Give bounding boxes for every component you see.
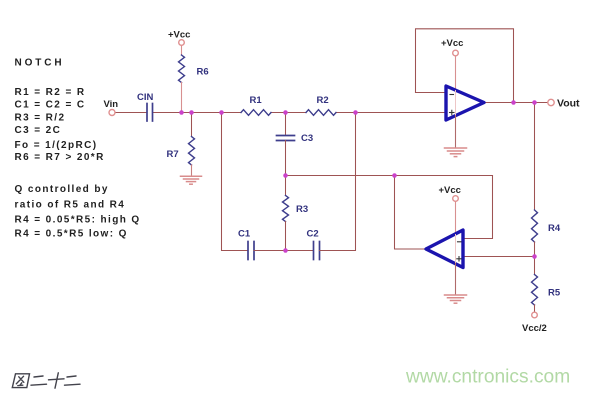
resistor R2 — [306, 110, 336, 116]
wire: +Vcc stub down to R6 — [181, 45, 183, 55]
svg-text:C2: C2 — [307, 229, 319, 240]
svg-text:R4 = 0.5*R5 low: Q: R4 = 0.5*R5 low: Q — [15, 229, 128, 240]
wire: op-amp1 feedback box — [416, 29, 514, 103]
resistor R3 — [283, 196, 289, 222]
wire: op-amp1 minus input — [416, 92, 447, 94]
wire: C1 to center bottom node — [254, 250, 314, 252]
svg-text:R3 = R/2: R3 = R/2 — [15, 112, 66, 123]
capacitor C1 — [248, 242, 254, 260]
capacitor CIN — [147, 104, 153, 122]
glyph shi — [49, 373, 65, 388]
wire: mid rail node down to R3 — [285, 176, 287, 196]
ground (op-amp1) — [445, 148, 467, 157]
wire: op-amp2 plus input to divider node — [463, 256, 535, 258]
wire: CIN right plate to R1 left — [153, 112, 242, 114]
svg-text:R6 = R7 > 20*R: R6 = R7 > 20*R — [15, 152, 105, 163]
svg-text:R2: R2 — [317, 95, 329, 106]
wire: op-amp2 minus loop — [463, 176, 493, 239]
node Vcc/2 open circle — [532, 312, 538, 318]
ground (below R7) — [181, 176, 202, 184]
svg-text:Vcc/2: Vcc/2 — [522, 323, 547, 334]
svg-text:+Vcc: +Vcc — [168, 30, 190, 41]
wire: R3 bottom to C1/C2 node — [285, 222, 287, 251]
resistor R4 — [532, 210, 538, 242]
capacitor C2 — [314, 242, 320, 260]
svg-text:R5: R5 — [548, 288, 561, 299]
svg-text:Vout: Vout — [557, 98, 580, 110]
glyph er — [31, 376, 47, 385]
glyph er — [65, 376, 81, 385]
node +Vcc open circle (op-amp1) — [453, 50, 459, 56]
svg-text:CIN: CIN — [137, 92, 154, 103]
wire: C3 bottom to mid-rail node — [285, 141, 287, 176]
svg-text:+Vcc: +Vcc — [441, 38, 463, 49]
svg-text:Fo = 1/(2pRC): Fo = 1/(2pRC) — [15, 140, 98, 151]
caption: figure number (drawn CJK glyphs) — [12, 373, 80, 388]
wire: R1 right to R2 left — [271, 112, 306, 114]
node junction dots — [179, 100, 537, 259]
note text block — [15, 58, 141, 240]
node Vin open circle — [109, 110, 115, 116]
svg-text:R1 = R2 = R: R1 = R2 = R — [15, 87, 86, 98]
node +Vcc open circle (op-amp2) — [453, 196, 459, 202]
svg-text:+Vcc: +Vcc — [439, 185, 461, 196]
svg-text:C3 = 2C: C3 = 2C — [15, 125, 62, 136]
svg-text:R3: R3 — [296, 204, 308, 215]
node +Vcc open circle (R6) — [179, 40, 185, 46]
wire: op-amp2 to ground — [455, 263, 457, 294]
svg-text:R6: R6 — [197, 67, 209, 78]
wire: mid node down to C3 — [285, 113, 287, 136]
wire: R4 bottom to divider node — [534, 242, 536, 275]
svg-text:ratio of R5 and R4: ratio of R5 and R4 — [15, 199, 126, 210]
svg-text:NOTCH: NOTCH — [15, 58, 65, 69]
resistor R7 — [189, 137, 195, 166]
svg-text:C1 = C2 = C: C1 = C2 = C — [15, 100, 86, 111]
svg-text:R4 = 0.05*R5: high Q: R4 = 0.05*R5: high Q — [15, 215, 141, 226]
wire: R5 bottom to Vcc/2 — [534, 305, 536, 312]
resistor R5 — [532, 275, 538, 306]
svg-text:C1: C1 — [238, 229, 251, 240]
wire: output node down to R4 — [534, 103, 536, 211]
resistor R6 — [179, 55, 185, 83]
wire: node down to R7 — [191, 113, 193, 137]
wire: op-amp1 to ground — [455, 116, 457, 148]
wire: +Vcc stub op-amp1 — [455, 56, 457, 90]
wire: R7 bottom to ground — [191, 165, 193, 176]
svg-text:www.cntronics.com: www.cntronics.com — [405, 367, 570, 388]
svg-text:Q controlled by: Q controlled by — [15, 184, 109, 195]
wire: R6 bottom to main line — [181, 83, 183, 113]
wire: +Vcc stub op-amp2 — [455, 201, 457, 234]
wire: C2 right up to R2 output node — [320, 113, 356, 251]
wire: left branch down from main line to C1 — [222, 113, 249, 251]
svg-text:R4: R4 — [548, 223, 561, 234]
ground (op-amp2) — [445, 295, 467, 303]
wire: mid rail (C3/R3 node to op-amp2 minus loop) — [286, 175, 493, 177]
wire: main signal line Vin to op-amp1 plus input — [115, 112, 147, 114]
glyph tu (box) — [12, 374, 29, 388]
resistor R1 — [241, 110, 271, 116]
svg-text:R1: R1 — [250, 95, 263, 106]
svg-text:R7: R7 — [167, 149, 179, 160]
svg-text:C3: C3 — [301, 133, 313, 144]
wire: op-amp1 output to Vout — [484, 102, 548, 104]
wire: op-amp2 output loop up to mid rail — [395, 176, 427, 250]
node Vout open circle — [548, 99, 554, 105]
op-amp U1 — [446, 86, 484, 120]
op-amp U2 — [426, 230, 463, 268]
capacitor C3 — [277, 136, 295, 141]
wire: R2 right to op-amp1 plus input — [336, 112, 446, 114]
svg-text:Vin: Vin — [104, 99, 119, 110]
